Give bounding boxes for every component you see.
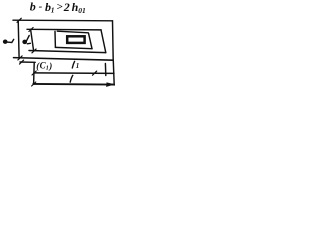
label b1 (rotated, inside left margin of mid rect): [23, 40, 27, 43]
tick mid top-left: [29, 28, 33, 32]
tick l1 left end: [32, 71, 36, 75]
svg-text:): ): [48, 61, 52, 71]
svg-text:>: >: [56, 1, 62, 13]
tick outer bottom-left: [18, 56, 22, 60]
svg-text:2: 2: [63, 0, 70, 14]
svg-text:b: b: [30, 0, 36, 14]
extension line from outer-right corner down: [112, 61, 115, 85]
extension line from mid-left corner down: [33, 63, 36, 84]
label b (rotated, left of outer rect): [3, 40, 7, 43]
formula b - b1 > 2 h01: [30, 0, 86, 72]
arrowhead at right end of l: [107, 83, 115, 87]
svg-text:1: 1: [51, 6, 55, 15]
svg-text:-: -: [39, 1, 43, 13]
rectangle mid (design area contour): [27, 28, 101, 31]
extension line from mid-right corner down: [104, 64, 106, 76]
tick l1 at inner-rect extension: [93, 71, 97, 75]
label l ell stroke: [70, 75, 73, 82]
tick c1 left: [20, 60, 24, 64]
tick mid bottom-left: [32, 49, 36, 53]
rectangle inner (pyramid top contour): [57, 31, 88, 33]
svg-text:01: 01: [78, 6, 86, 15]
label l1 ell stroke: [72, 61, 74, 68]
rectangle outer (footing plan contour): [13, 19, 113, 22]
tick outer top-left: [17, 18, 21, 22]
dim line l (bottom): [33, 83, 114, 86]
dim line c1: [20, 61, 35, 63]
svg-text:1: 1: [76, 62, 80, 70]
dim line l1: [34, 72, 114, 75]
tick l left end: [32, 82, 36, 86]
loaded area (thick rectangle): [67, 36, 84, 43]
